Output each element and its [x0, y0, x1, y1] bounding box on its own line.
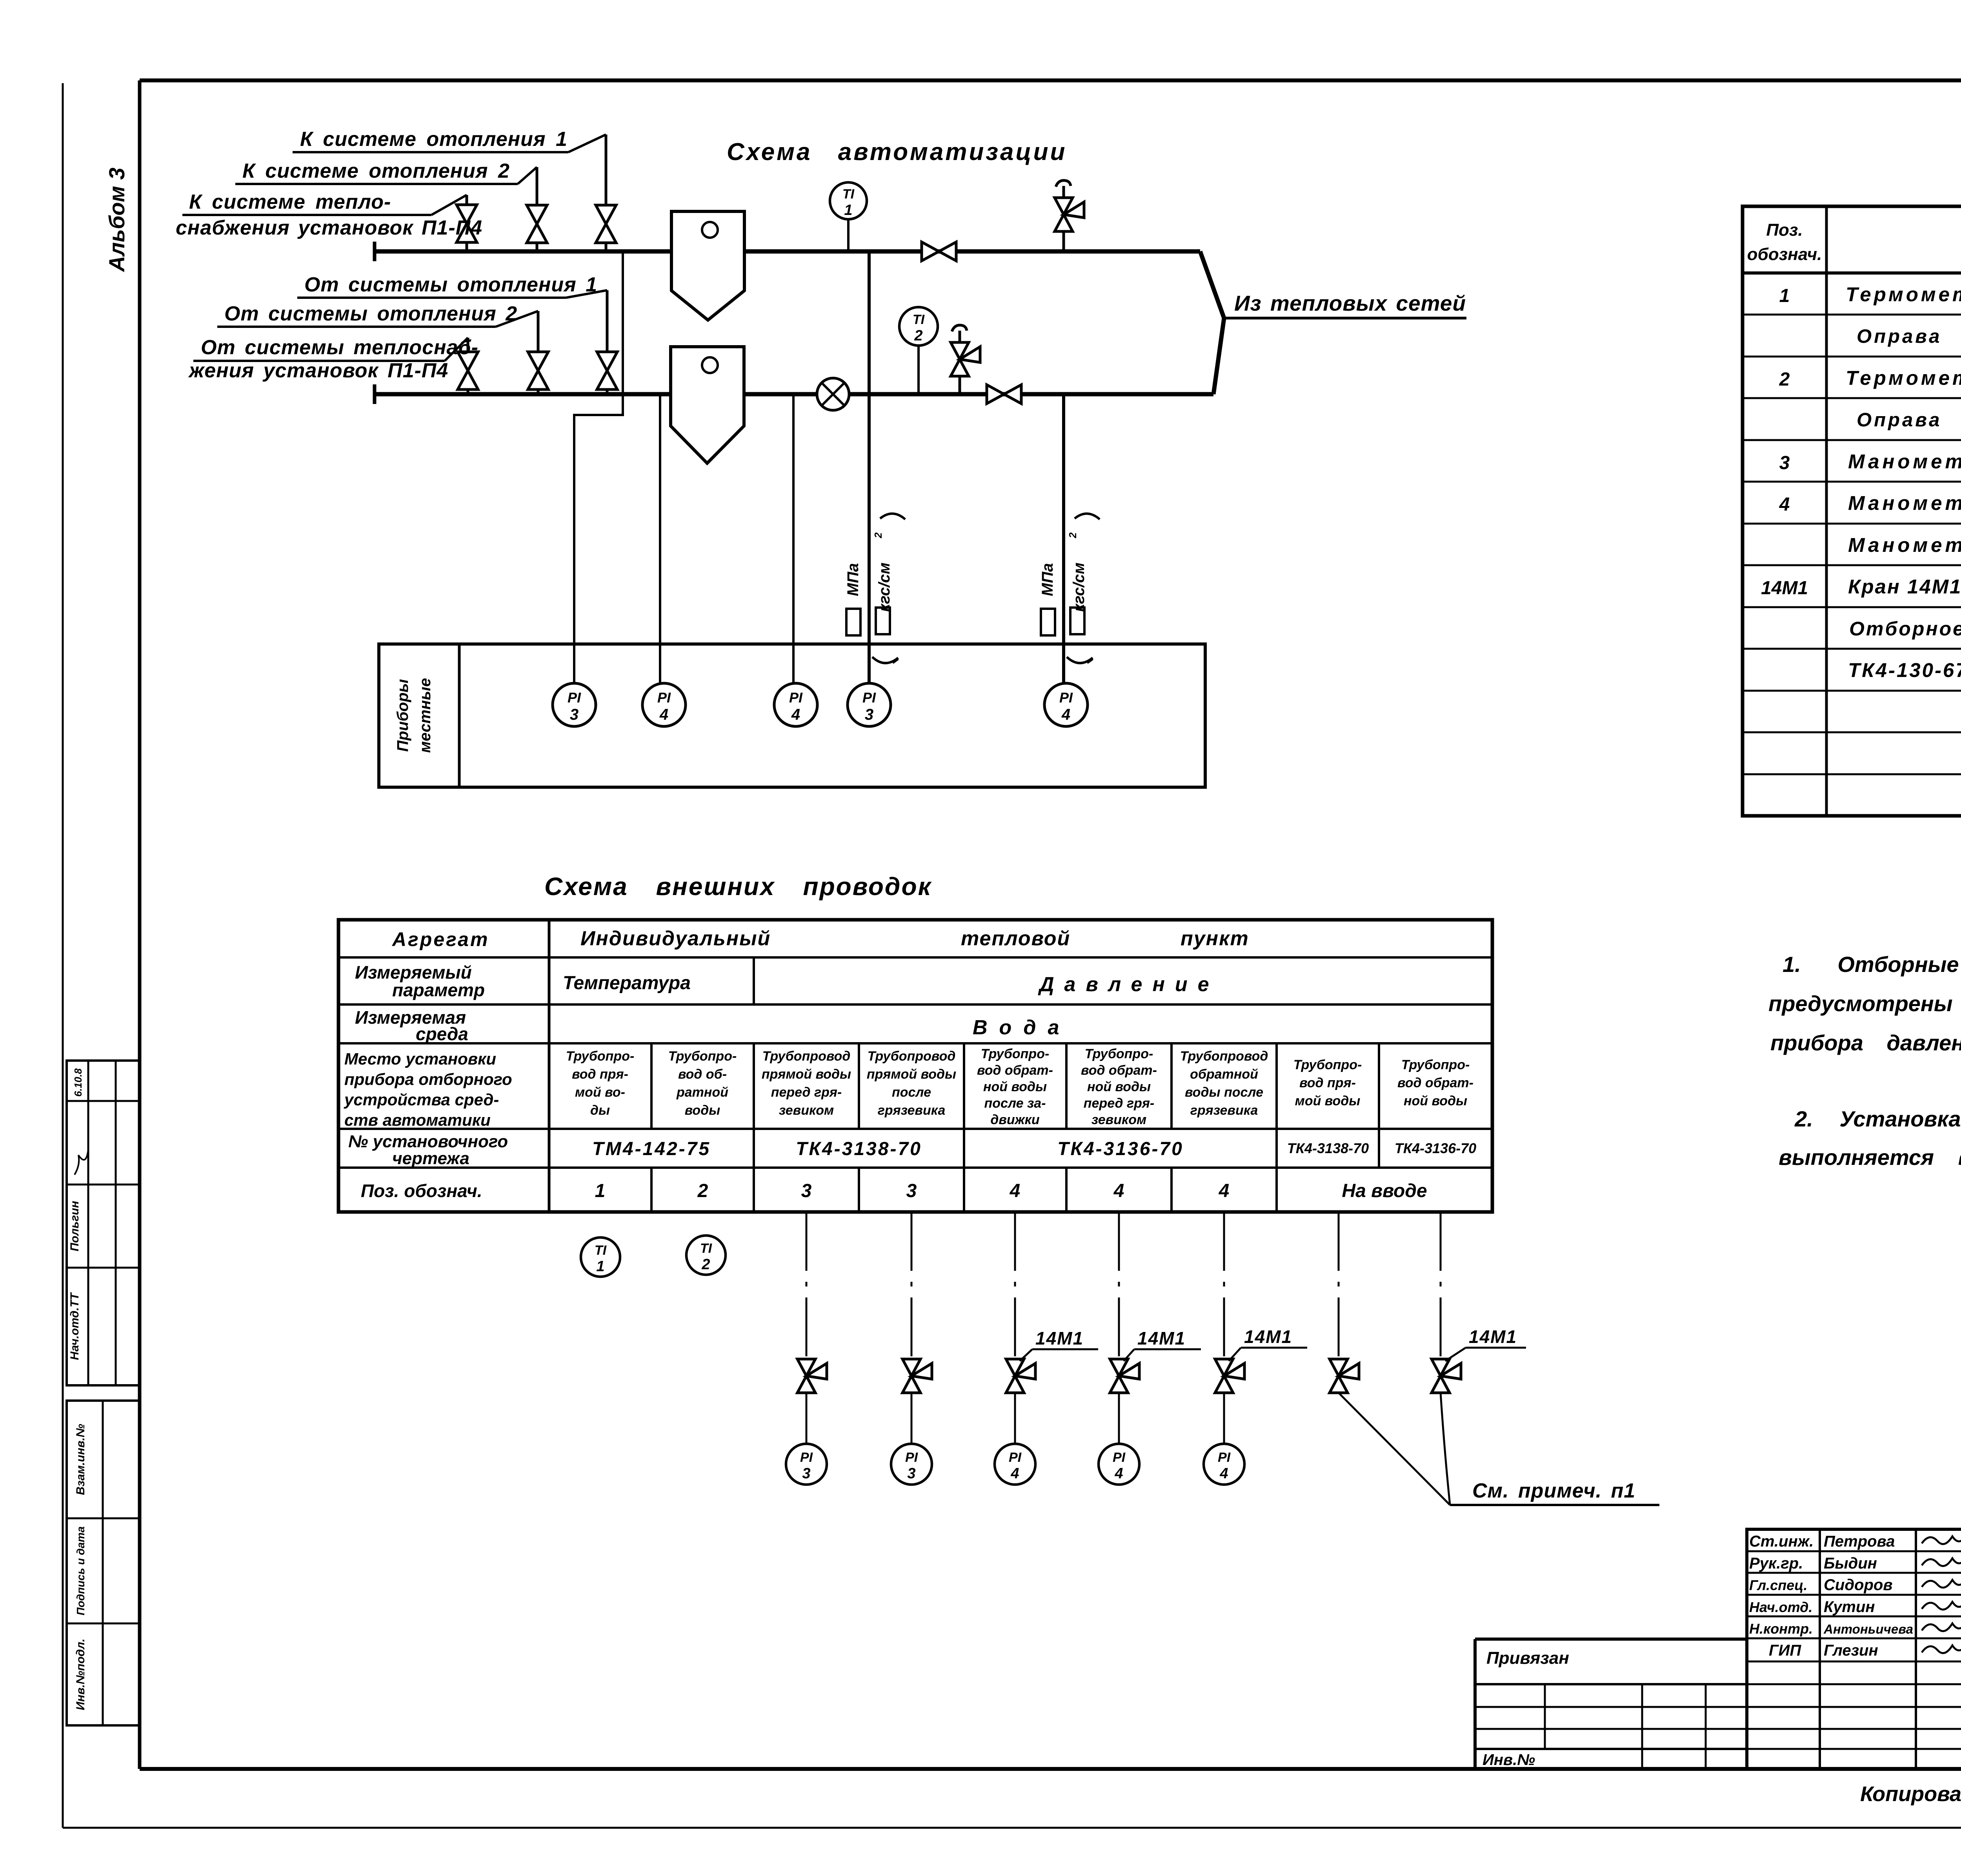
svg-text:прибора отборного: прибора отборного: [344, 1070, 512, 1088]
svg-text:тепловой: тепловой: [961, 927, 1070, 950]
svg-text:Вода: Вода: [973, 1016, 1071, 1039]
svg-text:Н.контр.: Н.контр.: [1749, 1621, 1813, 1637]
svg-text:Трубопро-: Трубопро-: [668, 1049, 737, 1064]
svg-text:МПа: МПа: [844, 563, 862, 596]
svg-text:вод пря-: вод пря-: [572, 1067, 628, 1082]
svg-text:№ установочного: № установочного: [348, 1132, 508, 1151]
svg-text:PI: PI: [905, 1450, 919, 1465]
svg-text:Инв.№: Инв.№: [1483, 1751, 1535, 1769]
svg-text:Схема внешних проводок: Схема внешних проводок: [544, 872, 932, 901]
svg-text:Трубопровод: Трубопровод: [868, 1049, 956, 1064]
svg-text:Трубопро-: Трубопро-: [566, 1049, 635, 1064]
svg-text:Трубопро-: Трубопро-: [981, 1046, 1050, 1061]
svg-text:параметр: параметр: [392, 980, 485, 1000]
svg-text:1: 1: [595, 1181, 606, 1201]
svg-text:Кран 14М1: Кран 14М1: [1848, 575, 1961, 598]
svg-text:3: 3: [865, 706, 873, 723]
svg-text:Рук.гр.: Рук.гр.: [1749, 1555, 1803, 1572]
svg-text:4: 4: [1114, 1465, 1123, 1482]
svg-text:Трубопровод: Трубопровод: [1180, 1049, 1268, 1064]
svg-text:От системы отопления 1: От системы отопления 1: [304, 273, 597, 296]
svg-text:Приборы: Приборы: [394, 679, 411, 751]
svg-text:См. примеч. п1: См. примеч. п1: [1472, 1479, 1635, 1502]
svg-text:2. Установка и заказ закладных: 2. Установка и заказ закладных конструкц…: [1794, 1106, 1961, 1131]
svg-text:6.10.8: 6.10.8: [72, 1068, 84, 1097]
svg-text:Трубопровод: Трубопровод: [762, 1049, 851, 1064]
svg-text:кгс/см: кгс/см: [876, 562, 893, 612]
svg-text:ной воды: ной воды: [1087, 1079, 1151, 1094]
svg-text:перед гря-: перед гря-: [1084, 1096, 1155, 1111]
svg-text:Кутин: Кутин: [1824, 1598, 1875, 1616]
svg-text:14М1: 14М1: [1244, 1326, 1292, 1347]
svg-text:ной воды: ной воды: [1404, 1094, 1467, 1108]
svg-text:ТК4-3138-70: ТК4-3138-70: [796, 1139, 922, 1159]
svg-text:Агрегат: Агрегат: [391, 928, 489, 950]
svg-text:перед гря-: перед гря-: [771, 1085, 842, 1100]
svg-text:ТК4-3136-70: ТК4-3136-70: [1057, 1139, 1184, 1159]
svg-text:Взам.инв.№: Взам.инв.№: [74, 1424, 87, 1495]
svg-text:Индивидуальный: Индивидуальный: [580, 927, 771, 950]
svg-text:кгс/см: кгс/см: [1070, 562, 1088, 612]
svg-text:местные: местные: [417, 678, 434, 753]
svg-text:Термометр П5 1240103: Термометр П5 1240103: [1846, 283, 1961, 306]
svg-text:Оправа: Оправа: [1857, 409, 1942, 431]
svg-text:PI: PI: [1218, 1450, 1231, 1465]
svg-text:4: 4: [1219, 1181, 1230, 1201]
svg-text:От системы теплоснаб-: От системы теплоснаб-: [201, 336, 478, 359]
svg-text:К системе отопления 2: К системе отопления 2: [242, 160, 510, 182]
svg-text:Манометр ОБМ1-100×: Манометр ОБМ1-100×: [1848, 450, 1961, 473]
svg-text:3: 3: [906, 1181, 917, 1201]
svg-text:мой воды: мой воды: [1295, 1094, 1361, 1108]
svg-text:Отборное устройство: Отборное устройство: [1849, 618, 1961, 640]
svg-text:ратной: ратной: [676, 1085, 728, 1100]
svg-text:TI: TI: [842, 187, 855, 202]
svg-text:выполняется в части ОВ.: выполняется в части ОВ.: [1779, 1145, 1961, 1170]
svg-text:2: 2: [872, 532, 884, 539]
svg-text:зевиком: зевиком: [1091, 1112, 1146, 1127]
svg-text:обознач.: обознач.: [1747, 245, 1822, 264]
svg-text:4: 4: [659, 706, 668, 723]
svg-text:4: 4: [1010, 1181, 1021, 1201]
svg-text:Нач.отд.ТТ: Нач.отд.ТТ: [68, 1292, 81, 1360]
svg-text:ТМ4-142-75: ТМ4-142-75: [592, 1139, 711, 1159]
svg-text:ств автоматики: ств автоматики: [344, 1111, 491, 1129]
svg-text:PI: PI: [657, 690, 671, 706]
svg-text:14М1: 14М1: [1761, 578, 1808, 599]
svg-text:Копировал Крайнова: Копировал Крайнова: [1860, 1782, 1961, 1806]
svg-text:ГИП: ГИП: [1769, 1642, 1801, 1659]
svg-text:вод об-: вод об-: [678, 1067, 727, 1082]
svg-text:PI: PI: [1059, 690, 1073, 706]
svg-text:PI: PI: [789, 690, 803, 706]
svg-text:Термометр П4 1240 103: Термометр П4 1240 103: [1846, 367, 1961, 389]
svg-text:3: 3: [570, 706, 578, 723]
svg-text:предусмотрены для подключения: предусмотрены для подключения переносног…: [1768, 991, 1961, 1016]
svg-text:МПа: МПа: [1039, 563, 1056, 596]
svg-text:PI: PI: [568, 690, 581, 706]
svg-text:4: 4: [1010, 1465, 1019, 1482]
svg-text:ТК4-3136-70: ТК4-3136-70: [1395, 1140, 1476, 1156]
svg-text:ды: ды: [590, 1103, 610, 1118]
svg-text:2: 2: [1779, 369, 1790, 390]
svg-text:вод обрат-: вод обрат-: [1397, 1075, 1473, 1090]
svg-text:4: 4: [1779, 494, 1790, 515]
svg-text:14М1: 14М1: [1035, 1328, 1084, 1348]
svg-text:1: 1: [844, 202, 852, 218]
svg-text:прямой воды: прямой воды: [762, 1067, 851, 1082]
svg-text:вод обрат-: вод обрат-: [977, 1063, 1053, 1078]
svg-text:PI: PI: [862, 690, 876, 706]
svg-text:зевиком: зевиком: [779, 1103, 834, 1118]
svg-text:2: 2: [1067, 532, 1079, 539]
svg-text:Антоньичева: Антоньичева: [1823, 1622, 1913, 1636]
svg-text:14М1: 14М1: [1137, 1328, 1186, 1348]
svg-text:1. Отборные устройства давлени: 1. Отборные устройства давления на вводе: [1783, 952, 1961, 977]
svg-text:2: 2: [914, 328, 922, 344]
svg-text:жения установок П1-П4: жения установок П1-П4: [188, 359, 448, 382]
svg-text:ТК4-3138-70: ТК4-3138-70: [1287, 1140, 1369, 1156]
svg-text:4: 4: [1219, 1465, 1228, 1482]
svg-text:От системы отопления 2: От системы отопления 2: [224, 302, 517, 325]
svg-text:Поз.: Поз.: [1766, 220, 1803, 240]
svg-text:Подпись и дата: Подпись и дата: [75, 1527, 87, 1616]
svg-text:движки: движки: [990, 1112, 1040, 1127]
svg-text:Петрова: Петрова: [1824, 1533, 1895, 1550]
svg-text:Схема автоматизации: Схема автоматизации: [727, 138, 1067, 166]
svg-text:после: после: [892, 1085, 931, 1100]
svg-text:Трубопро-: Трубопро-: [1293, 1057, 1362, 1072]
svg-text:вод обрат-: вод обрат-: [1081, 1063, 1157, 1078]
svg-text:Альбом 3: Альбом 3: [104, 167, 129, 273]
svg-text:вод пря-: вод пря-: [1299, 1075, 1356, 1090]
svg-text:TI: TI: [913, 312, 925, 327]
svg-text:пункт: пункт: [1181, 927, 1249, 950]
svg-text:Манометр ОБМ1-100×: Манометр ОБМ1-100×: [1848, 492, 1961, 514]
svg-text:чертежа: чертежа: [392, 1149, 469, 1168]
svg-text:2: 2: [701, 1256, 710, 1273]
svg-text:прямой воды: прямой воды: [867, 1067, 956, 1082]
svg-text:Польгин: Польгин: [68, 1201, 81, 1252]
svg-text:1: 1: [596, 1258, 604, 1275]
svg-text:Нач.отд.: Нач.отд.: [1749, 1599, 1812, 1615]
svg-text:ТК4-130-67: ТК4-130-67: [1848, 659, 1961, 681]
svg-text:3: 3: [802, 1465, 810, 1482]
svg-text:Инв.№подл.: Инв.№подл.: [74, 1639, 87, 1710]
svg-text:3: 3: [801, 1181, 812, 1201]
svg-text:Глезин: Глезин: [1824, 1642, 1878, 1659]
svg-text:3: 3: [1779, 453, 1790, 473]
svg-text:среда: среда: [416, 1024, 468, 1044]
svg-text:Сидоров: Сидоров: [1824, 1576, 1893, 1594]
svg-text:Гл.спец.: Гл.спец.: [1749, 1577, 1807, 1593]
svg-text:2: 2: [697, 1181, 708, 1201]
svg-text:К системе отопления 1: К системе отопления 1: [300, 128, 568, 151]
svg-text:Место установки: Место установки: [344, 1050, 496, 1068]
svg-text:Ст.инж.: Ст.инж.: [1749, 1533, 1814, 1550]
svg-text:Быдин: Быдин: [1824, 1555, 1877, 1572]
svg-text:3: 3: [907, 1465, 915, 1482]
svg-text:PI: PI: [1009, 1450, 1022, 1465]
svg-text:4: 4: [791, 706, 800, 723]
svg-text:1: 1: [1779, 286, 1790, 306]
svg-text:TI: TI: [700, 1241, 713, 1256]
svg-text:снабжения установок П1-П4: снабжения установок П1-П4: [176, 217, 482, 239]
svg-text:PI: PI: [800, 1450, 813, 1465]
svg-text:14М1: 14М1: [1469, 1326, 1517, 1347]
svg-text:прибора давления.: прибора давления.: [1770, 1030, 1961, 1055]
svg-text:PI: PI: [1113, 1450, 1126, 1465]
svg-text:Из тепловых сетей: Из тепловых сетей: [1234, 291, 1466, 315]
svg-text:Манометр ОБМ1-100×: Манометр ОБМ1-100×: [1848, 534, 1961, 556]
svg-text:воды после: воды после: [1185, 1085, 1263, 1100]
svg-text:Трубопро-: Трубопро-: [1085, 1046, 1153, 1061]
svg-text:Трубопро-: Трубопро-: [1401, 1057, 1470, 1072]
svg-text:грязевика: грязевика: [1190, 1103, 1258, 1118]
svg-text:ной воды: ной воды: [983, 1079, 1047, 1094]
svg-text:обратной: обратной: [1190, 1067, 1258, 1082]
svg-text:Температура: Температура: [563, 973, 691, 993]
svg-text:Привязан: Привязан: [1486, 1649, 1569, 1668]
svg-text:4: 4: [1061, 706, 1070, 723]
svg-text:грязевика: грязевика: [878, 1103, 946, 1118]
svg-text:Поз. обознач.: Поз. обознач.: [361, 1181, 482, 1201]
svg-text:4: 4: [1113, 1181, 1124, 1201]
svg-text:Оправа: Оправа: [1857, 326, 1942, 347]
svg-text:На вводе: На вводе: [1342, 1181, 1427, 1201]
svg-text:К системе тепло-: К системе тепло-: [189, 191, 391, 213]
svg-text:после за-: после за-: [984, 1096, 1046, 1111]
svg-text:мой во-: мой во-: [575, 1085, 625, 1100]
svg-text:устройства сред-: устройства сред-: [344, 1090, 499, 1109]
svg-text:TI: TI: [595, 1243, 607, 1258]
svg-text:воды: воды: [685, 1103, 720, 1118]
svg-text:Давление: Давление: [1038, 973, 1219, 996]
